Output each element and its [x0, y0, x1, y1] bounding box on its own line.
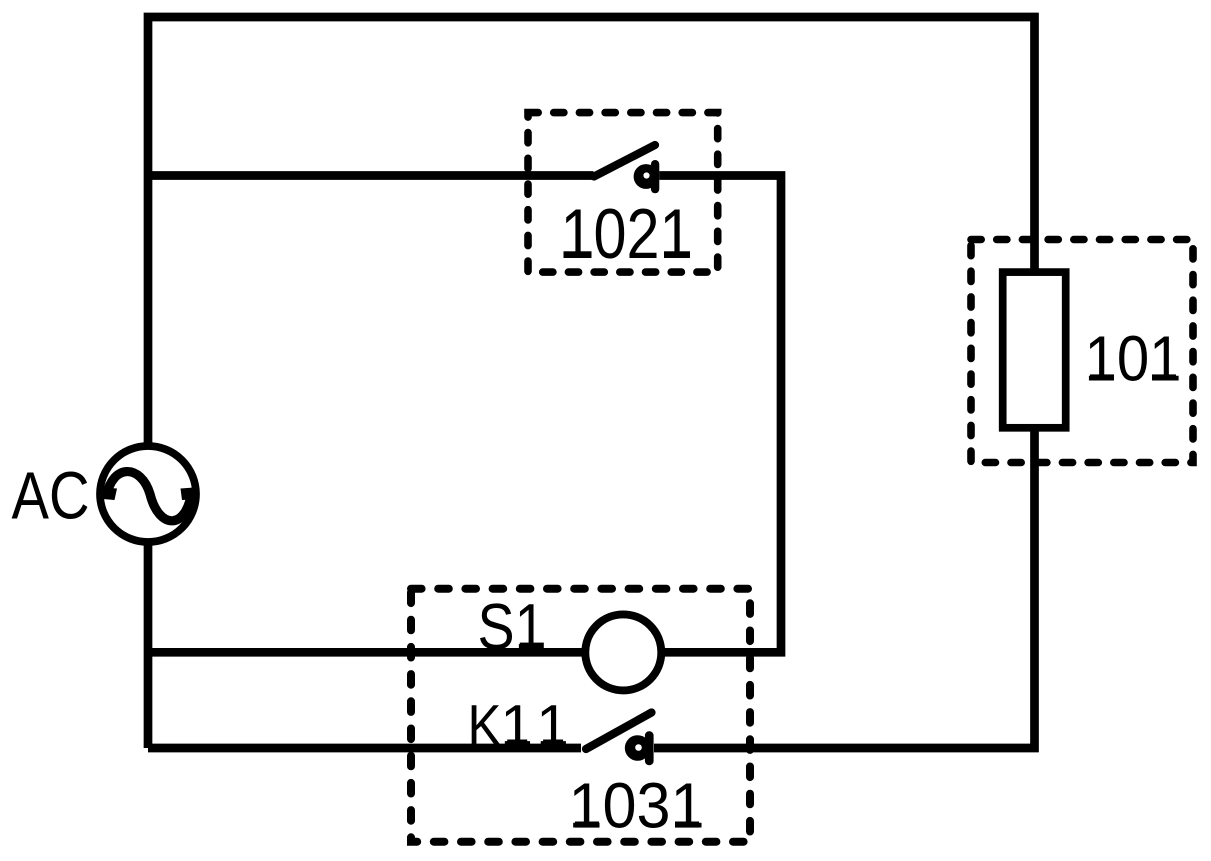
svg-text:101: 101 [1085, 323, 1182, 395]
label K11: foot of first 1 [507, 740, 527, 746]
wire: outer loop (left, top, right sides) [148, 17, 1035, 748]
AC source U1: right arrow blob [181, 488, 195, 501]
wire: bottom-left segment to K11 pivot [148, 744, 581, 753]
relay block 1031: dashed box [411, 589, 750, 842]
svg-text:AC: AC [12, 460, 90, 534]
label 1021: foot of last 1 [664, 251, 690, 258]
wire: upper branch left segment to 1021 switch pivot [148, 171, 594, 180]
switch 1021: contact circle [634, 164, 659, 189]
switch 1021: contact hole [643, 172, 649, 178]
switch K11: contact hole [635, 744, 642, 751]
switch 1021: contact bar [651, 160, 659, 193]
AC source U1: left arrow blob [103, 488, 118, 501]
wire: upper branch right segment, right-side vertical, S1 branch right segment [623, 176, 781, 653]
svg-text:1: 1 [500, 694, 533, 759]
label 101: foot of last 1 [1152, 374, 1176, 380]
svg-text:1021: 1021 [561, 194, 693, 273]
AC source U1: sine wave [107, 472, 192, 521]
AC source U1: circle [100, 446, 196, 542]
resistor 101: body [1003, 272, 1066, 428]
switch K11: contact bar [645, 731, 654, 765]
svg-text:1031: 1031 [569, 770, 705, 842]
switch K11: lever [586, 713, 652, 750]
svg-text:K: K [468, 694, 502, 759]
label S1: foot of 1 [520, 643, 544, 649]
svg-text:S1: S1 [478, 591, 546, 663]
switch K11: contact circle [625, 735, 651, 761]
label 1021: foot of first 1 [564, 251, 592, 258]
switch 1021: lever [594, 145, 655, 177]
svg-text:1: 1 [536, 694, 569, 759]
label 1031: foot of first 1 [575, 822, 599, 828]
wire: S1 branch left segment [148, 648, 623, 657]
label 1031: foot of last 1 [675, 822, 699, 828]
lamp S1: circle [585, 614, 661, 690]
switch 1021: dashed box [528, 113, 718, 273]
resistor 101: dashed box [971, 240, 1193, 463]
label K11: foot of last 1 [543, 740, 563, 746]
label 101: foot of first 1 [1090, 374, 1114, 380]
